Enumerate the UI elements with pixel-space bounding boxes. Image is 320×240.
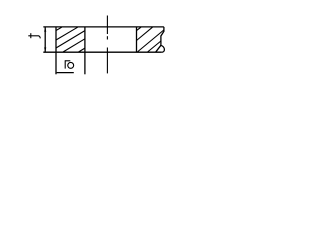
- right section outer profile: [161, 27, 165, 52]
- left ring section left edge: [55, 27, 57, 52]
- left ring section right edge: [84, 27, 86, 52]
- top edge / extension line: [43, 26, 164, 28]
- bottom edge / extension line: [43, 51, 162, 53]
- notch left leg: [156, 45, 161, 52]
- centerline (dash-dot vertical): [106, 16, 108, 74]
- b extension lines: [55, 52, 57, 74]
- hatch left section: [56, 27, 85, 52]
- hatch right section: [137, 27, 164, 52]
- label b (glyph): [65, 60, 73, 68]
- dimension line t: [44, 27, 46, 52]
- t dimension arrowheads: [44, 27, 46, 52]
- label t (rotated): [28, 33, 40, 38]
- b dimension line: [57, 72, 74, 74]
- right ring section left edge: [136, 27, 138, 52]
